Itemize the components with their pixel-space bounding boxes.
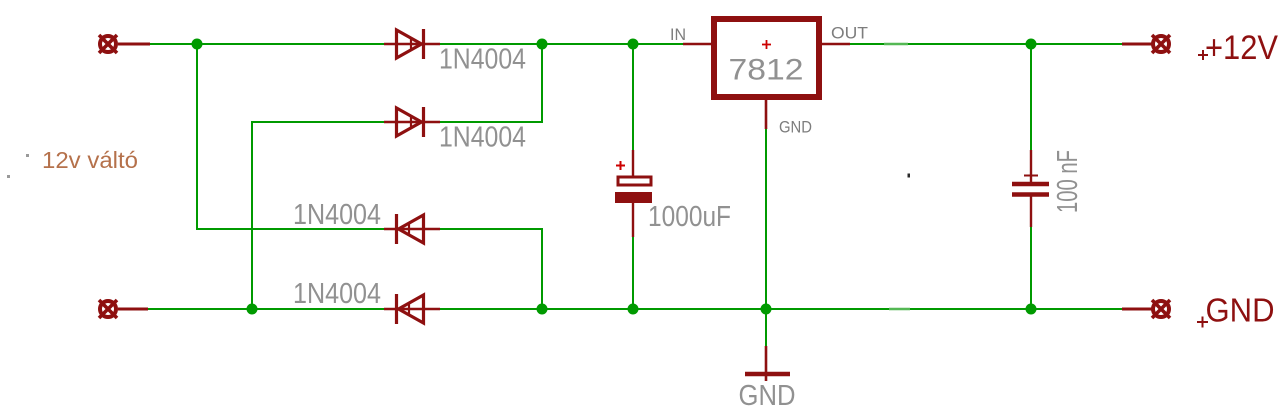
- capacitor C1 plus sign: [616, 161, 625, 170]
- wire row2 right with corner up to top rail: [439, 44, 542, 122]
- wire artifact light segment on OUT net: [884, 43, 908, 45]
- svg-text:IN: IN: [670, 25, 686, 44]
- diode D2 pin wire: [384, 121, 440, 123]
- svg-text:1N4004: 1N4004: [293, 278, 381, 310]
- IC1 7812 regulator pin OUT wire: [821, 43, 850, 46]
- wire capacitor C1 branch upper: [632, 44, 634, 151]
- diode D3 (row3, pointing left): [397, 214, 424, 244]
- pad X1-1 stub wire: [118, 43, 150, 46]
- capacitor C2 100nF pin wire upper: [1030, 150, 1032, 184]
- wire capacitor C1 branch lower: [632, 236, 634, 309]
- capacitor C2 plate 1: [1012, 182, 1049, 187]
- svg-text:100 nF: 100 nF: [1052, 150, 1084, 213]
- wire bottom rail segment pad to D4: [146, 308, 385, 310]
- IC1 7812 regulator pin IN wire: [683, 43, 712, 46]
- capacitor C1 1000uF pin wire upper: [632, 150, 634, 182]
- pad X2-1 (+12V right top): [1152, 35, 1170, 53]
- svg-text:OUT: OUT: [831, 24, 868, 43]
- junction node top rail at x=542: [537, 39, 548, 50]
- svg-text:1000uF: 1000uF: [648, 201, 731, 233]
- junction node bottom rail at x=542: [537, 304, 548, 315]
- IC1 7812 regulator body: [714, 19, 819, 97]
- diode D2 (row2, pointing right): [397, 107, 424, 137]
- wire 7812 GND branch down: [765, 128, 767, 347]
- ground symbol bar: [745, 372, 790, 377]
- junction node bottom rail at vertical B: [247, 304, 258, 315]
- wire vertical A from top junction down to row3: [197, 44, 385, 229]
- capacitor C2 plus tick: [1024, 175, 1038, 177]
- junction node bottom rail at 7812 GND: [761, 304, 772, 315]
- svg-text:1N4004: 1N4004: [439, 122, 526, 154]
- svg-text:GND: GND: [1206, 292, 1275, 329]
- wire row3 right with corner down to bottom rail: [439, 229, 542, 309]
- capacitor C2 pin wire lower: [1030, 194, 1032, 227]
- ground symbol stem: [765, 346, 768, 381]
- wire bottom rail segment D4 to right pad: [439, 308, 1124, 310]
- label net +12V origin cross: [1198, 50, 1208, 60]
- wire vertical B from row2 corner down to bottom rail: [252, 122, 385, 309]
- pad X2-2 (GND right bottom): [1152, 300, 1170, 318]
- svg-text:1N4004: 1N4004: [293, 199, 381, 231]
- diode D1 (top, pointing right): [397, 29, 424, 59]
- svg-text:7812: 7812: [729, 54, 804, 87]
- junction node bottom rail at C1: [628, 304, 639, 315]
- label net GND origin cross: [1197, 317, 1208, 328]
- speck 1: [26, 154, 29, 157]
- wire capacitor C2 branch upper: [1030, 44, 1032, 151]
- capacitor C2 plate 2: [1012, 192, 1049, 197]
- capacitor C1 pin wire lower: [632, 203, 634, 237]
- diode D4 (bottom rail, pointing left): [397, 294, 424, 324]
- svg-text:GND: GND: [779, 118, 812, 137]
- pad X1-2 (bottom left): [99, 300, 117, 318]
- pad X1-2 stub wire: [118, 308, 148, 311]
- capacitor C1 bottom plate (solid): [615, 192, 652, 203]
- junction node top rail at C2: [1026, 39, 1037, 50]
- IC1 origin cross: [762, 40, 771, 49]
- pad X2-1 stub wire: [1122, 43, 1152, 46]
- junction node top rail at C1: [628, 39, 639, 50]
- wire artifact light segment on bottom rail: [889, 308, 910, 310]
- svg-text:GND: GND: [739, 380, 796, 412]
- svg-text:12v váltó: 12v váltó: [42, 147, 138, 173]
- wire top rail segment D1 to 7812 IN: [439, 43, 684, 45]
- diode D4 pin wire: [384, 308, 440, 310]
- IC1 7812 regulator pin GND wire: [765, 99, 768, 129]
- wire top rail segment 7812 OUT to right pad: [848, 43, 1124, 45]
- junction node top rail at vertical A: [192, 39, 203, 50]
- wire capacitor C2 branch lower: [1030, 226, 1032, 309]
- pad X1-1 (top left): [99, 35, 117, 53]
- pad X2-2 stub wire: [1122, 308, 1152, 311]
- wire top rail segment pad to diode D1: [148, 43, 385, 45]
- capacitor C1 top plate (outlined): [618, 177, 651, 185]
- speck 2: [7, 175, 10, 178]
- speck 3: [908, 174, 911, 178]
- diode D3 pin wire: [384, 228, 440, 230]
- diode D1 pin wire: [384, 43, 440, 45]
- svg-text:1N4004: 1N4004: [439, 44, 526, 76]
- junction node bottom rail at C2: [1026, 304, 1037, 315]
- svg-text:+12V: +12V: [1205, 29, 1278, 67]
